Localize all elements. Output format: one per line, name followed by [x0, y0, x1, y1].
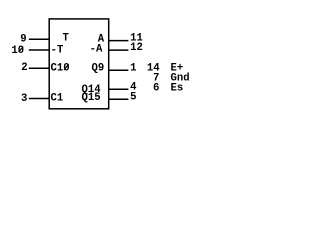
- svg-text:Q9: Q9: [92, 63, 105, 75]
- svg-text:6: 6: [153, 82, 159, 94]
- svg-text:1: 1: [130, 62, 136, 74]
- wire pin 1: [109, 69, 129, 71]
- svg-text:12: 12: [130, 42, 143, 54]
- IC body U1: [49, 19, 108, 109]
- wire pin 12: [109, 49, 129, 51]
- svg-text:2: 2: [21, 62, 27, 74]
- wire pin 11: [109, 40, 129, 42]
- svg-text:5: 5: [130, 91, 136, 103]
- slash on zero of 10: [19, 47, 24, 53]
- svg-text:9: 9: [20, 34, 26, 46]
- svg-text:C10: C10: [51, 63, 70, 75]
- wire pin 9: [29, 38, 49, 40]
- slash on zero of C10: [64, 64, 69, 70]
- wire pin 3: [29, 98, 49, 100]
- wire pin 5: [109, 98, 129, 100]
- svg-text:Q15: Q15: [82, 92, 101, 104]
- wire pin 10: [29, 49, 49, 51]
- svg-text:-A: -A: [90, 44, 103, 56]
- IC block schematic: [0, 0, 210, 120]
- svg-text:3: 3: [21, 93, 27, 105]
- svg-text:10: 10: [11, 45, 24, 57]
- svg-text:Es: Es: [171, 82, 184, 94]
- svg-text:-T: -T: [51, 45, 64, 57]
- wire pin 2: [29, 67, 49, 69]
- wire pin 4: [109, 88, 129, 90]
- svg-text:C1: C1: [51, 93, 64, 105]
- svg-text:T: T: [63, 33, 70, 45]
